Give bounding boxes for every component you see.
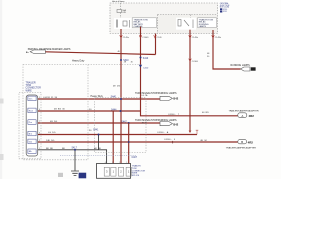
svg-text:LG/OR 31 90: LG/OR 31 90 [43,97,58,99]
svg-text:Pur: Pur [29,121,33,124]
svg-text:LG DG: LG DG [48,132,56,134]
svg-text:Gm: Gm [29,141,33,143]
svg-text:Heavy Duty: Heavy Duty [91,95,104,98]
svg-text:46 RD: 46 RD [202,112,209,114]
svg-text:Heavy Duty: Heavy Duty [72,59,85,62]
svg-text:4R2: 4R2 [248,141,254,145]
svg-text:C4100 ← 5: C4100 ← 5 [164,139,176,141]
svg-text:LAMPS: LAMPS [199,25,207,28]
svg-text:4E DG: 4E DG [113,86,120,88]
svg-text:1: 1 [126,162,127,164]
svg-text:14E DG: 14E DG [46,140,55,142]
svg-text:LG 7A: LG 7A [142,94,149,97]
svg-text:4R2: 4R2 [249,114,255,118]
svg-text:C4100 ← 7: C4100 ← 7 [168,114,180,116]
svg-text:C410: C410 [143,67,149,69]
svg-text:BK BK: BK BK [46,148,54,150]
svg-text:6: 6 [39,109,40,111]
svg-text:C1049: C1049 [142,37,149,39]
svg-text:C149: C149 [157,37,163,39]
svg-text:C407: C407 [132,157,138,159]
svg-text:4B BG 30: 4B BG 30 [54,109,65,111]
svg-text:C4100 ← A: C4100 ← A [157,131,169,134]
svg-text:S447: S447 [121,122,127,124]
svg-text:30: 30 [131,62,133,64]
svg-text:5: 5 [39,97,40,99]
svg-text:SPLICE: SPLICE [132,175,140,177]
svg-text:C4100: C4100 [192,61,199,63]
svg-text:TRAILER/CAMPER ADAPTER: TRAILER/CAMPER ADAPTER [226,146,256,149]
svg-text:A: A [242,114,244,118]
svg-text:3: 3 [39,132,40,134]
svg-text:2: 2 [39,140,40,142]
svg-text:S444: S444 [111,109,117,111]
svg-text:CHARGE: CHARGE [134,25,144,28]
svg-text:7: 7 [39,121,40,123]
svg-text:F2.31: F2.31 [223,11,227,13]
svg-text:4B 30: 4B 30 [142,122,148,124]
svg-text:Hot at all times: Hot at all times [112,0,125,3]
svg-text:2: 2 [119,162,120,164]
svg-text:4E 34: 4E 34 [200,140,207,142]
svg-text:4B DG: 4B DG [50,121,57,123]
svg-text:S410: S410 [143,58,149,60]
svg-text:B: B [241,140,243,144]
svg-text:3: 3 [112,162,113,164]
svg-text:TRAILER/CAMPER ADAPTER: TRAILER/CAMPER ADAPTER [229,109,259,112]
svg-text:S441: S441 [93,129,99,131]
svg-text:1: 1 [39,148,40,150]
svg-text:BK BK: BK BK [94,148,102,150]
svg-text:F2.30: F2.30 [223,9,227,11]
svg-text:WIRE: WIRE [26,89,33,92]
svg-text:4: 4 [105,162,106,164]
svg-text:C149b: C149b [192,37,199,39]
svg-text:S417: S417 [72,148,78,150]
svg-text:C149a: C149a [123,37,130,39]
svg-text:B42: B42 [173,122,178,126]
svg-text:RUNNING LAMPS: RUNNING LAMPS [231,64,251,67]
svg-text:B42: B42 [173,96,178,100]
svg-text:C149b: C149b [215,37,222,39]
